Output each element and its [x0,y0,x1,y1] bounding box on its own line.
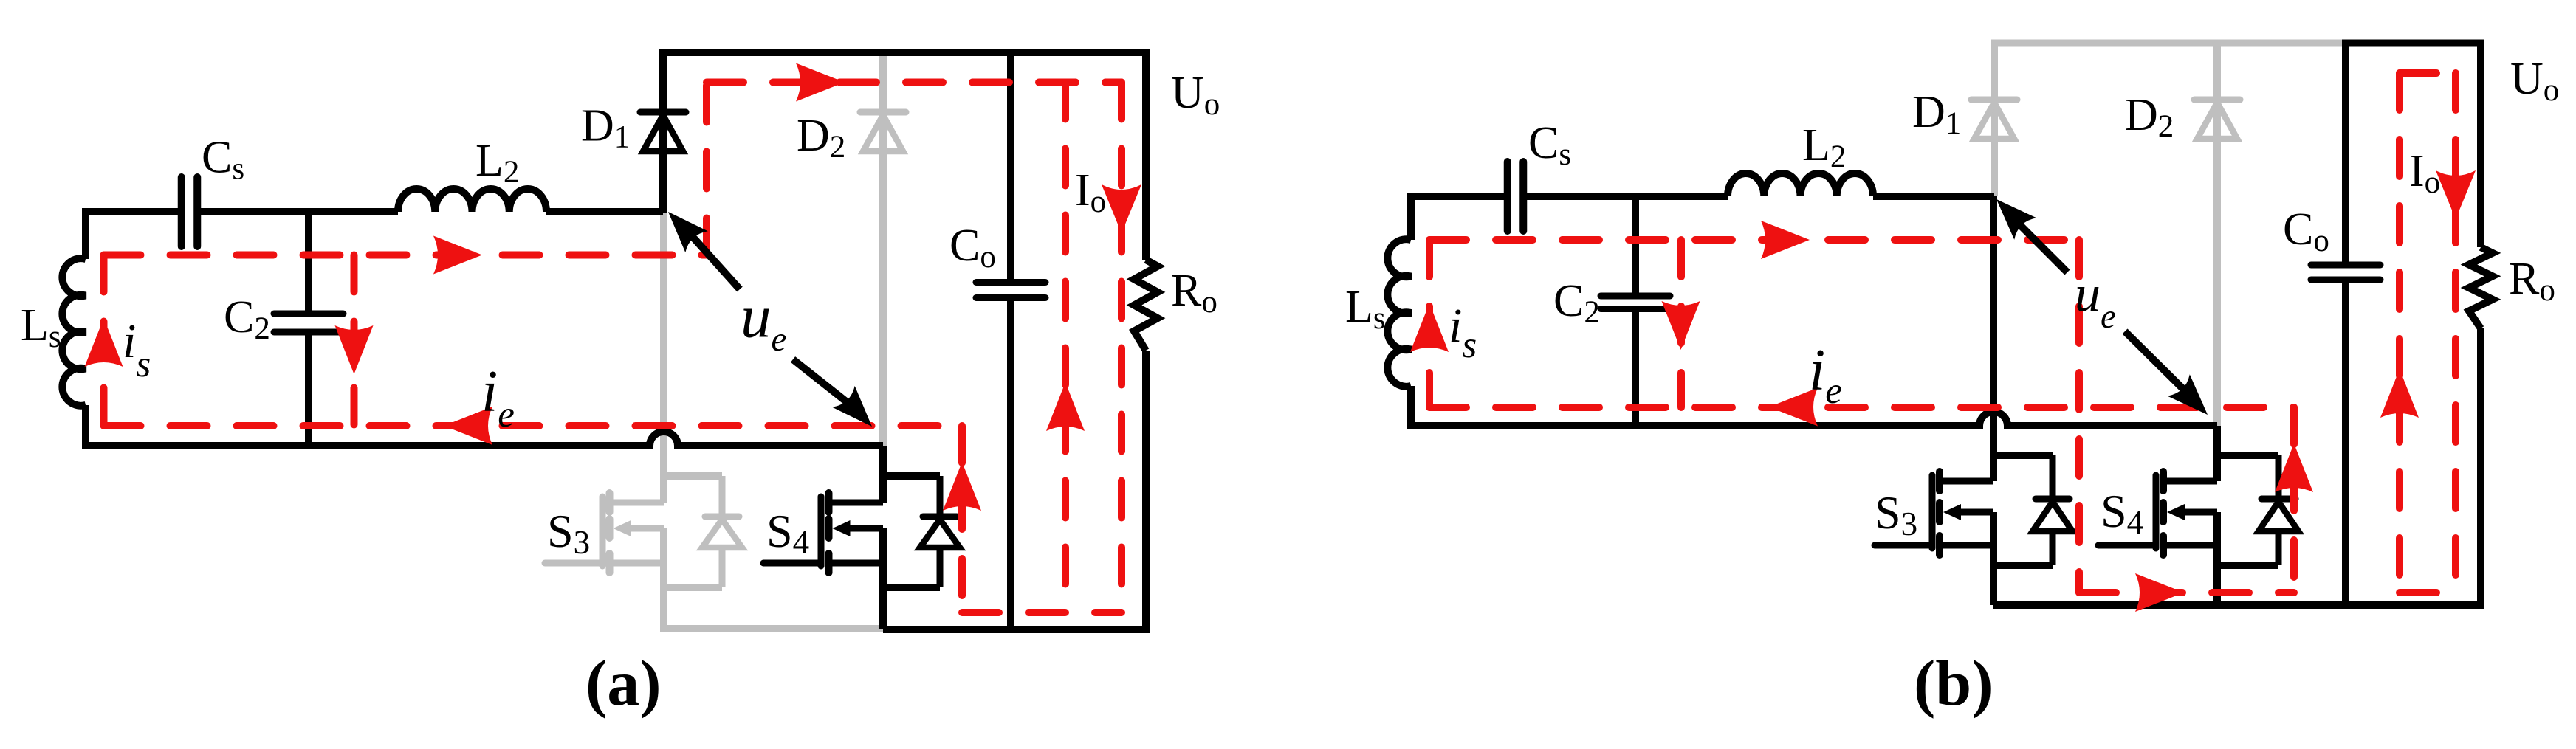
red dashed S4 branch vertical (figure a) [958,426,966,612]
wire top rail (figure a) [663,49,1146,56]
red arrow Io down (figure b) [2436,170,2476,219]
inductor Ls and left vertical wire (figure b) [1387,193,1411,429]
label Co (figure a) [949,221,996,275]
arrow ue measurement (figure b) [1996,199,2208,415]
label Ls (figure a) [21,300,61,354]
diode D2 (figure b, inactive gray) [2194,44,2240,427]
wire gray top rail (figure b) [1994,40,2346,47]
red dashed output loop (figure b) [2400,73,2456,593]
capacitor C2 (figure b) [1601,296,1670,309]
wire D1 branch vertical (figure a) [659,49,667,213]
svg-text:(a): (a) [585,648,662,719]
red arrow ie left (figure b) [1769,388,1818,427]
capacitor Cs (figure b) [1508,162,1524,231]
label (b) caption [1914,648,1993,719]
capacitor Co (figure a) [976,283,1045,298]
label S4 (figure b) [2101,485,2143,541]
red arrow C2 down (figure b) [1662,301,1700,350]
label Uo (figure a) [1171,68,1220,122]
label ie (figure a) [481,359,515,435]
label Ro (figure b) [2509,254,2555,308]
transistor S4 (figure b, MOSFET) [2098,426,2298,605]
label (a) caption [585,648,662,719]
wire bottom rail with crossover bump (figure a) [82,432,883,446]
red arrow top right (figure a) [433,236,482,275]
label is (figure b) [1449,299,1477,366]
capacitor C2 (figure a) [274,314,343,332]
label Ro (figure a) [1171,266,1217,320]
label D1 (figure b) [1912,87,1961,141]
wire L2-junction to S3 drain (figure b) [1990,196,1997,481]
label is (figure a) [123,314,151,385]
red dashed bottom horizontal ie (figure a) [104,422,963,429]
inductor L2 (figure b) [1728,173,1873,196]
red dashed upper horizontal (figure a) [707,79,1122,86]
label Cs (figure a) [202,133,244,187]
red arrow lower right (figure b) [2135,573,2184,612]
red dashed Co loop vertical (figure a) [1062,83,1069,613]
capacitor Co branch wire (figure a) [1007,52,1014,629]
resistor Ro branch wire (figure a) [1142,49,1150,633]
red dashed middle vertical (figure b) [2075,240,2083,593]
label L2 (figure b) [1802,120,1846,174]
red dashed S4 up vertical (figure b) [2290,407,2298,593]
red arrow S4 up (figure a) [943,462,981,511]
capacitor Cs (figure a) [182,177,198,246]
label ie (figure b) [1809,338,1842,412]
inductor Ls and left vertical wire (figure a) [62,208,86,449]
label ue (figure a) [741,283,786,359]
resistor Ro (figure a) [1134,260,1158,351]
label Io (figure a) [1075,165,1106,219]
label D2 (figure b) [2125,90,2174,144]
capacitor C2 branch wire (figure a) [305,212,312,446]
transistor S3 (figure a, inactive gray MOSFET) [545,446,742,587]
red arrow C2 down (figure a) [335,325,374,374]
red arrow S4 up (figure b) [2275,443,2313,492]
capacitor Co (figure b) [2311,265,2380,280]
red dashed Ro loop vertical (figure a) [1118,83,1125,613]
red arrow output loop up (figure b) [2380,369,2419,418]
svg-text:(b): (b) [1914,648,1993,719]
capacitor C2 branch wire (figure b) [1632,196,1639,426]
red dashed C2 branch vertical (figure a) [351,255,358,427]
resistor Ro (figure b) [2469,247,2493,328]
label L2 (figure a) [475,136,519,190]
wire output box top (figure b) [2346,40,2481,47]
label Io (figure b) [2409,146,2440,200]
red dashed loop is left vertical (figure b) [1426,240,1433,407]
label Ls (figure b) [1345,282,1386,336]
red dashed C2 branch vertical (figure b) [1677,240,1685,407]
red dashed bottom return (figure a) [962,609,1122,616]
red dashed loop top horizontal (figure b) [1429,236,2079,244]
red arrow is up (figure b) [1410,303,1449,352]
resistor Ro branch wire (figure b) [2477,40,2484,610]
red arrow Io down (figure a) [1102,184,1141,233]
red arrow is up (figure a) [85,318,123,367]
label D1 (figure a) [581,101,630,155]
red arrow ie left (figure a) [444,407,492,445]
red dashed loop top horizontal (figure a) [104,252,707,259]
inductor L2 (figure a) [398,189,546,212]
label C2 (figure a) [224,292,270,346]
wire bottom output rail (figure a) [883,626,1150,633]
diode D1 (figure b, inactive gray) [1971,40,2017,197]
label S3 (figure b) [1875,486,1917,542]
diode D2 (figure a, inactive gray) [860,52,906,446]
red dashed loop is left vertical (figure a) [100,255,108,427]
red arrow top right (figure b) [1761,221,1810,259]
label S3 (figure a) [547,505,590,561]
wire bottom rail with crossover bump (figure b) [1407,412,2217,426]
wire bottom rail S-section to output (figure b) [1993,601,2484,609]
transistor S4 (figure a, MOSFET) [763,446,960,629]
red dashed lower horizontal (figure b) [2079,589,2294,596]
wire main horizontal with Cs gap (figure b) [1411,193,1994,200]
wire L2-junction to S3 drain (figure a, gray) [660,213,667,503]
red dashed D1 bypass vertical (figure a) [703,83,710,255]
label Uo (figure b) [2510,54,2559,108]
label Cs (figure b) [1528,118,1571,172]
label ue (figure b) [2075,266,2116,336]
red arrow upper right (figure a) [796,63,845,102]
label Co (figure b) [2283,204,2329,258]
arrow ue measurement (figure a) [668,212,872,427]
transistor S3 (figure b, MOSFET) [1875,426,2072,605]
diode D1 (figure a) [640,112,686,151]
red arrow Co loop up (figure a) [1046,382,1085,431]
wire main horizontal with Cs gap (figure a) [86,208,663,215]
capacitor Co branch wire (figure b) [2342,40,2349,606]
label S4 (figure a) [766,505,809,561]
red dashed bottom horizontal ie (figure b) [1429,404,2294,411]
label D2 (figure a) [797,111,845,165]
wire S3 source to bottom rail (figure a, gray) [664,587,883,629]
label C2 (figure b) [1553,276,1600,330]
